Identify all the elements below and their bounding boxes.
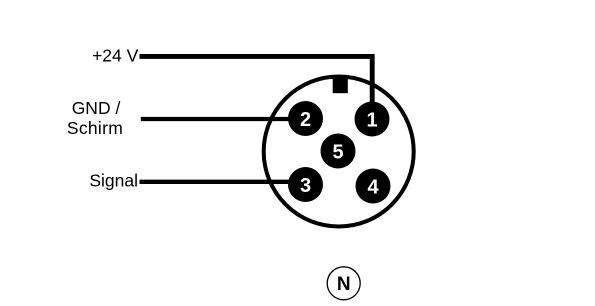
wire GND/Schirm to pin 2 bbox=[141, 117, 305, 121]
svg-text:N: N bbox=[337, 274, 351, 295]
svg-text:3: 3 bbox=[300, 175, 311, 197]
wire Signal to pin 3 bbox=[140, 180, 306, 184]
pin 3 bbox=[288, 167, 323, 202]
pin 5 bbox=[321, 134, 356, 169]
svg-text:4: 4 bbox=[367, 177, 379, 199]
svg-text:+24 V: +24 V bbox=[92, 46, 139, 66]
keying notch bbox=[333, 76, 348, 93]
pin 2 bbox=[288, 101, 323, 136]
svg-text:Schirm: Schirm bbox=[67, 118, 123, 138]
svg-text:1: 1 bbox=[366, 110, 377, 132]
wire +24 V to pin 1 bbox=[140, 56, 373, 103]
svg-text:Signal: Signal bbox=[89, 171, 138, 191]
svg-text:5: 5 bbox=[332, 142, 343, 164]
svg-text:GND /: GND / bbox=[72, 98, 121, 118]
connector body (M12 socket outline) bbox=[264, 77, 414, 227]
node N (figure marker) bbox=[327, 267, 360, 300]
pin 1 bbox=[355, 102, 390, 137]
svg-text:2: 2 bbox=[300, 109, 311, 131]
pin 4 bbox=[356, 169, 391, 204]
